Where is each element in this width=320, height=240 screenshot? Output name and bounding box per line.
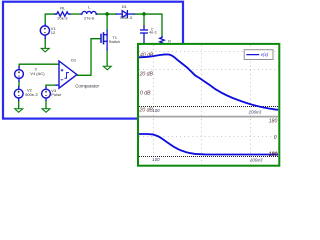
svg-text:180: 180 [269, 118, 278, 124]
svg-text:RL: RL [60, 5, 66, 10]
svg-text:O1: O1 [71, 58, 77, 63]
svg-text:Switch: Switch [109, 39, 120, 44]
svg-text:D1: D1 [122, 4, 128, 9]
svg-text:-20 dB: -20 dB [138, 107, 154, 113]
svg-text:4e-3: 4e-3 [149, 31, 156, 35]
svg-text:20 dB: 20 dB [139, 72, 154, 78]
svg-text:v(x): v(x) [261, 52, 269, 57]
svg-text:100: 100 [152, 157, 160, 162]
svg-text:V4 (AC): V4 (AC) [30, 71, 45, 76]
svg-text:0 dB: 0 dB [140, 91, 151, 97]
svg-text:100: 100 [152, 108, 160, 113]
svg-text:100e3: 100e3 [250, 157, 263, 162]
svg-text:500e-3: 500e-3 [25, 92, 38, 97]
svg-text:100e3: 100e3 [249, 109, 262, 114]
svg-text:Comparator: Comparator [75, 83, 99, 88]
svg-text:0: 0 [274, 135, 277, 141]
svg-text:Pulse: Pulse [51, 92, 62, 97]
svg-text:700e-3: 700e-3 [120, 15, 133, 20]
svg-text:-180: -180 [267, 152, 277, 158]
svg-text:27e-6: 27e-6 [84, 15, 95, 20]
svg-text:12: 12 [51, 30, 56, 35]
svg-text:20e-3: 20e-3 [57, 15, 68, 20]
